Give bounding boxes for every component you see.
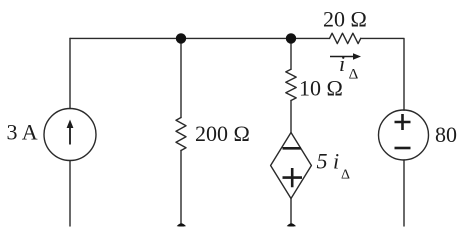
- wire third branch upper (node B to 10-ohm resistor): [290, 38, 292, 69]
- terminal tick bottom of 200-ohm branch: [177, 223, 186, 226]
- wire left vertical lower (current source to bottom): [69, 161, 71, 226]
- voltage source V1 circle: [379, 110, 429, 160]
- current source I1 circle: [44, 109, 96, 161]
- dependent source U1 diamond: [271, 133, 312, 199]
- svg-text:Δ: Δ: [341, 168, 350, 183]
- svg-text:3 A: 3 A: [7, 120, 38, 145]
- resistor R2 10 ohm (vertical zigzag): [286, 69, 296, 100]
- resistor R1 200 ohm (vertical zigzag): [176, 118, 186, 151]
- svg-text:20 Ω: 20 Ω: [323, 7, 367, 32]
- wire top-right (20-ohm resistor to right corner and down): [361, 38, 404, 110]
- wire top-left horizontal (current source to 20-ohm resistor): [70, 37, 330, 39]
- node B junction dot: [286, 33, 296, 43]
- terminal tick bottom of dependent-source branch: [287, 223, 296, 226]
- wire third branch middle (10-ohm resistor to dependent source): [290, 101, 292, 133]
- voltage source V1 plus sign: [395, 114, 411, 130]
- dependent source plus sign: [283, 168, 303, 187]
- wire left vertical upper (top wire to current source): [69, 38, 71, 108]
- wire middle branch upper (node A to 200-ohm resistor): [180, 38, 182, 117]
- svg-text:Δ: Δ: [349, 66, 359, 82]
- svg-text:5 i: 5 i: [317, 149, 340, 174]
- svg-text:200 Ω: 200 Ω: [195, 121, 250, 146]
- node A junction dot: [176, 33, 186, 43]
- dependent source minus sign: [283, 147, 302, 150]
- voltage source V1 minus sign: [395, 147, 411, 150]
- current arrow for i-delta (above label, pointing right): [330, 53, 361, 59]
- resistor R3 20 ohm (horizontal zigzag): [330, 33, 361, 43]
- wire middle branch lower (200-ohm resistor to bottom terminal): [180, 151, 182, 225]
- svg-text:80: 80: [435, 122, 457, 147]
- wire third branch lower (dependent source to bottom terminal): [290, 199, 292, 225]
- svg-text:10 Ω: 10 Ω: [299, 76, 343, 101]
- current source I1 arrow (pointing up): [67, 120, 74, 145]
- wire right vertical lower (voltage source to bottom): [403, 160, 405, 226]
- svg-text:i: i: [339, 51, 345, 76]
